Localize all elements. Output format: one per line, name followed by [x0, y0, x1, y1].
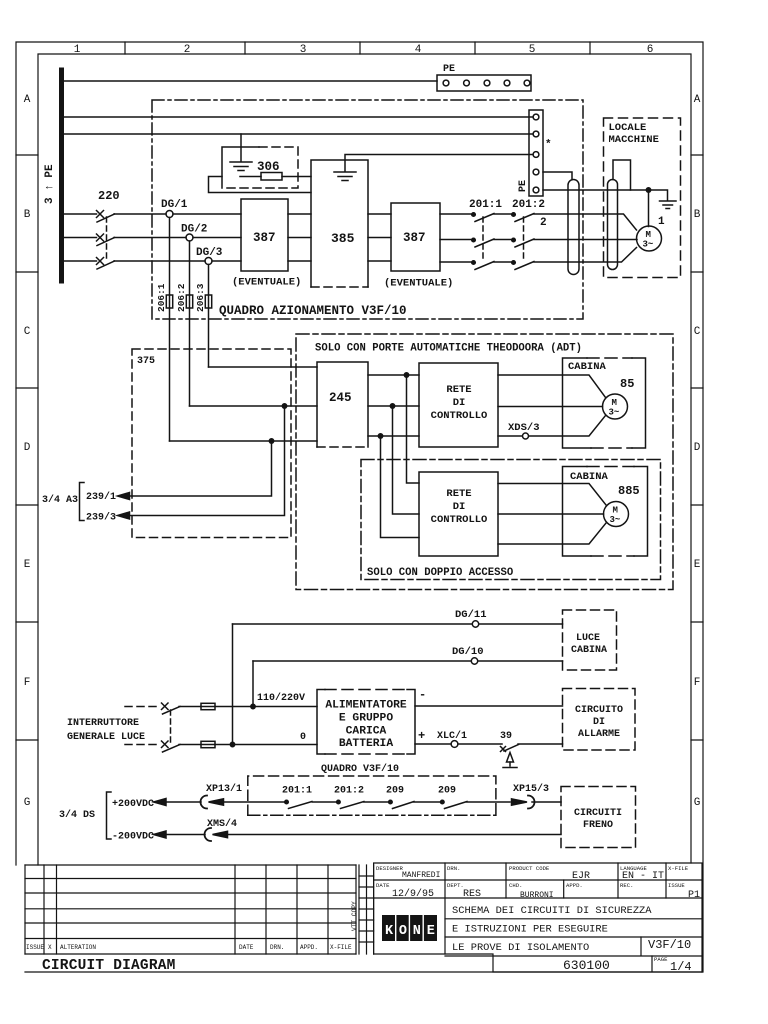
svg-text:1/4: 1/4 [670, 960, 692, 974]
contact 201:2 (brake line) [337, 800, 388, 808]
main switch 220 pole 1 [97, 211, 115, 223]
svg-text:885: 885 [618, 484, 640, 498]
node DG/10 [471, 658, 477, 664]
svg-text:-200VDC: -200VDC [112, 832, 154, 843]
wire XP13/1 to contact 1 [220, 801, 284, 803]
svg-text:206:3: 206:3 [195, 283, 206, 312]
svg-text:3~: 3~ [610, 515, 621, 525]
wire 245 out1 to RETE1 [368, 374, 419, 376]
svg-text:DEPT.: DEPT. [447, 882, 464, 889]
title block small labels [376, 865, 689, 963]
resistor 306 [261, 173, 282, 181]
svg-text:DESIGNER: DESIGNER [376, 865, 403, 872]
drive unit 385 [311, 160, 368, 287]
svg-text:D: D [694, 442, 701, 454]
svg-text:SCHEMA DEI CIRCUITI DI SICUREZ: SCHEMA DEI CIRCUITI DI SICUREZZA [452, 905, 652, 917]
svg-text:209: 209 [386, 786, 404, 797]
svg-text:3~: 3~ [609, 408, 620, 418]
arrow +200VDC [154, 799, 167, 806]
wire wrap under filter to 385 [209, 177, 312, 193]
svg-text:DATE: DATE [239, 944, 254, 951]
svg-text:DI: DI [453, 501, 466, 513]
svg-text:4: 4 [415, 44, 422, 56]
svg-text:39: 39 [500, 731, 512, 742]
wire RETE1 to motor top [498, 375, 606, 398]
svg-text:2: 2 [540, 217, 547, 229]
wire resistor right to 385 [282, 176, 311, 178]
svg-text:XDS/3: XDS/3 [508, 422, 540, 434]
main switch 220 pole 3 [97, 258, 115, 270]
svg-text:RETE: RETE [446, 384, 471, 396]
fuse 206:3 [205, 295, 211, 308]
svg-text:LE PROVE DI ISOLAMENTO: LE PROVE DI ISOLAMENTO [452, 942, 589, 954]
connector XP15/3 [512, 796, 535, 809]
junction dot riser DG/11 [230, 742, 234, 746]
label RETE DI CONTROLLO no.1 [431, 384, 488, 422]
wire XP15/3 to freno [532, 801, 561, 803]
svg-text:M: M [613, 506, 618, 516]
svg-text:MANFREDI: MANFREDI [402, 871, 440, 880]
svg-text:ALIMENTATORE: ALIMENTATORE [325, 700, 407, 712]
svg-text:CONTROLLO: CONTROLLO [431, 410, 488, 422]
svg-text:385: 385 [331, 231, 355, 246]
bracket 3/4 DS [107, 792, 112, 839]
wire DG/2 to 245 input2 [190, 405, 318, 407]
junction dot out2 [390, 404, 394, 408]
svg-text:206:2: 206:2 [176, 283, 187, 312]
wire DG/11 [233, 623, 563, 625]
svg-text:FRENO: FRENO [583, 820, 613, 831]
svg-text:E: E [694, 559, 701, 571]
svg-text:201:1: 201:1 [282, 786, 312, 797]
svg-text:239/1: 239/1 [86, 491, 116, 503]
svg-text:12/9/95: 12/9/95 [392, 888, 434, 900]
wire phase L3 [64, 260, 241, 262]
svg-text:G: G [24, 797, 31, 809]
svg-text:D: D [24, 442, 31, 454]
box CIRCUITI FRENO [561, 787, 636, 848]
node DG/2 [186, 234, 193, 241]
wire 245 out2 to RETE1 [368, 405, 419, 407]
wire bus to strip terminal 2 [64, 133, 533, 135]
svg-text:C: C [24, 326, 31, 338]
svg-text:SOLO CON PORTE AUTOMATICHE THE: SOLO CON PORTE AUTOMATICHE THEODOORA (AD… [315, 343, 582, 355]
svg-text:375: 375 [137, 356, 155, 367]
wire from L-line down to filter ground [240, 134, 242, 161]
junction dot riser DG/10 [251, 704, 255, 708]
wire lead-in top (dashed) [125, 706, 160, 708]
svg-text:245: 245 [329, 391, 352, 405]
arrow -200VDC [154, 831, 167, 838]
revision table grid [25, 865, 356, 954]
wire RETE1 to motor mid [498, 406, 603, 408]
wire arrow to XP13/1 [165, 801, 201, 803]
wire strip terminal 4 to cable [543, 172, 572, 180]
svg-text:XP15/3: XP15/3 [513, 783, 549, 795]
ground (machine room) [660, 201, 677, 209]
wire XLC to switch 39 [458, 743, 502, 745]
wire alim to allarme (minus) [415, 705, 563, 707]
box LUCE CABINA [563, 610, 617, 670]
svg-text:2: 2 [184, 44, 191, 56]
svg-text:B: B [24, 209, 31, 221]
svg-text:CIRCUIT DIAGRAM: CIRCUIT DIAGRAM [42, 958, 176, 974]
svg-text:387: 387 [253, 231, 276, 245]
svg-text:EJR: EJR [572, 871, 590, 882]
svg-text:DG/10: DG/10 [452, 646, 484, 658]
switch general pole 1 [162, 703, 181, 714]
svg-text:V3F/10: V3F/10 [648, 938, 691, 952]
actuator and ground (switch 39) [503, 753, 517, 768]
svg-text:F: F [694, 677, 701, 689]
label LOCALE MACCHINE [609, 122, 659, 146]
fuse 206:2 [186, 295, 192, 308]
box SOLO CON PORTE AUTOMATICHE (ADT) [296, 334, 673, 590]
terminal strip PE (5 terminals) [529, 110, 543, 196]
label LUCE CABINA [571, 633, 607, 656]
box CABINA no.2 [563, 467, 648, 557]
LOW-SECTION [59, 609, 636, 848]
wire DG/3 to 245 input1 [209, 366, 318, 368]
wire tap to 239/3 [129, 406, 285, 516]
wire DG/1 drop [169, 218, 171, 296]
svg-text:3/4 A3: 3/4 A3 [42, 494, 78, 506]
cable sheath oval no.1 [568, 180, 579, 275]
svg-text:DATE: DATE [376, 882, 390, 889]
junction dot out1 [404, 373, 408, 377]
wire bus to PE terminal block [64, 80, 437, 82]
MID-SECTION [42, 218, 673, 590]
connector XP13/1 [201, 796, 224, 809]
label INTERRUTTORE GENERALE LUCE [67, 718, 145, 743]
node DG/3 [205, 258, 212, 265]
svg-text:ISSUE: ISSUE [26, 944, 44, 951]
switch linkage [170, 710, 172, 745]
ground (filter 306) [230, 162, 252, 171]
wire tap to 239/1 [129, 441, 272, 496]
svg-text:0: 0 [300, 732, 306, 743]
svg-text:LUCE: LUCE [576, 633, 600, 644]
revision table labels [26, 944, 352, 951]
TOP-SECTION [44, 64, 681, 319]
wire resistor left [240, 176, 261, 178]
wire RETE2 to motor bottom [498, 523, 606, 544]
wire to fuse bottom [179, 744, 201, 746]
contact 209 no.1 [389, 800, 440, 808]
label RETE DI CONTROLLO no.2 [431, 488, 488, 526]
svg-text:+200VDC: +200VDC [112, 799, 154, 810]
wire 245 out3 to RETE1 [368, 435, 419, 437]
terminal block PE (5 terminals) [437, 75, 531, 91]
switch 39 [501, 745, 519, 752]
wire XMS/4 to freno [224, 834, 561, 836]
svg-text:BATTERIA: BATTERIA [339, 738, 393, 750]
svg-text:XMS/4: XMS/4 [207, 818, 237, 830]
box SOLO CON DOPPIO ACCESSO [361, 460, 661, 580]
wire 385 top to strip terminal 3 [345, 155, 533, 172]
arrow 239/3 [118, 512, 130, 519]
fuse (top lighting) [201, 703, 215, 709]
filter box 306 [222, 147, 298, 188]
svg-text:PE: PE [443, 64, 455, 75]
cable sheath oval no.2 [608, 180, 618, 270]
svg-text:KONE: KONE [385, 924, 441, 939]
svg-text:DI: DI [593, 717, 605, 728]
wire out1 drop to RETE2 [407, 375, 420, 483]
svg-text:206:1: 206:1 [156, 283, 167, 312]
wire L1 to motor [568, 214, 637, 230]
svg-text:3~: 3~ [643, 240, 654, 250]
contact 209 no.2 [441, 800, 511, 808]
title block grid [374, 863, 702, 972]
contactor 201:2 contacts [512, 213, 568, 270]
svg-text:(EVENTUALE): (EVENTUALE) [232, 277, 301, 289]
svg-text:209: 209 [438, 786, 456, 797]
wire arrow to XMS/4 [165, 834, 205, 836]
connector XMS/4 [205, 828, 228, 841]
svg-text:DRN.: DRN. [270, 944, 284, 951]
wire lead-in bottom (dashed) [125, 744, 160, 746]
svg-text:VTT COPY: VTT COPY [351, 901, 358, 931]
svg-text:XP13/1: XP13/1 [206, 783, 242, 795]
svg-text:B: B [694, 209, 701, 221]
wire bus to strip terminal 1 [64, 116, 533, 118]
wire out2 drop to RETE2 [393, 406, 420, 514]
motor M 3~ (hoist) [637, 226, 662, 251]
node XDS/3 [523, 433, 529, 439]
wire DG/1 to 245 input3 [170, 440, 318, 442]
svg-text:1: 1 [658, 216, 665, 228]
box LOCALE MACCHINE [604, 118, 681, 278]
svg-text:X: X [48, 944, 52, 951]
svg-text:EN - IT: EN - IT [622, 871, 664, 882]
svg-text:239/3: 239/3 [86, 512, 116, 524]
svg-text:P1: P1 [688, 890, 700, 901]
bracket 3/4 A3 [80, 483, 85, 521]
node XLC/1 [451, 741, 458, 748]
junction dot out3 [378, 434, 382, 438]
wires 387-385-387 L1 [288, 213, 391, 215]
KONE logo [382, 915, 441, 941]
svg-text:110/220V: 110/220V [257, 692, 305, 704]
svg-text:C: C [694, 326, 701, 338]
svg-text:5: 5 [529, 44, 536, 56]
junction dot (PE at motor) [646, 188, 650, 192]
wires 387-385-387 L2 [288, 237, 391, 239]
wire DG/2 drop [189, 241, 191, 295]
svg-text:M: M [612, 398, 617, 408]
svg-text:3: 3 [300, 44, 307, 56]
svg-text:E: E [24, 559, 31, 571]
node DG/1 [166, 211, 173, 218]
svg-text:XLC/1: XLC/1 [437, 730, 467, 742]
svg-text:INTERRUTTORE: INTERRUTTORE [67, 718, 139, 729]
svg-text:QUADRO V3F/10: QUADRO V3F/10 [321, 763, 399, 775]
wire alim plus to XLC node [415, 743, 451, 745]
svg-text:3/4 DS: 3/4 DS [59, 809, 95, 821]
svg-text:RES: RES [463, 889, 481, 900]
svg-text:RETE: RETE [446, 488, 471, 500]
svg-text:X-FILE: X-FILE [330, 944, 352, 951]
TITLEBLOCK [25, 863, 702, 974]
wire RETE2 to motor top [498, 484, 606, 506]
contact 201:1 (brake line) [285, 800, 336, 808]
box 375 (dashed) [132, 349, 291, 538]
box RETE DI CONTROLLO no.2 [419, 472, 498, 556]
junction dot (239/3 tap) [282, 404, 286, 408]
svg-text:CABINA: CABINA [571, 645, 607, 656]
wire phase L1 [64, 213, 241, 215]
svg-text:ALLARME: ALLARME [578, 729, 620, 740]
wire fuse to alimentatore [215, 706, 317, 708]
svg-text:A: A [24, 94, 31, 106]
svg-text:CONTROLLO: CONTROLLO [431, 514, 488, 526]
fuse 206:1 [166, 295, 172, 308]
wire L2 to motor [568, 239, 637, 241]
ground (drive 385) [334, 172, 356, 181]
svg-text:387: 387 [403, 231, 426, 245]
wire dot to motor [648, 190, 650, 227]
svg-text:E GRUPPO: E GRUPPO [339, 713, 393, 725]
motor 885 (door drive 2) [604, 502, 629, 527]
svg-text:CABINA: CABINA [568, 361, 607, 373]
contactor box 387 no.1 [241, 199, 288, 271]
svg-text:APPD.: APPD. [566, 882, 583, 889]
main switch 220 pole 2 [97, 234, 115, 246]
svg-text:(EVENTUALE): (EVENTUALE) [384, 278, 453, 290]
wire DG/3 drop [208, 265, 210, 296]
wire RETE1 to motor bottom [498, 416, 606, 437]
svg-text:85: 85 [620, 377, 634, 391]
svg-text:DG/11: DG/11 [455, 609, 487, 621]
box CIRCUITO DI ALLARME [563, 689, 636, 751]
svg-text:MACCHINE: MACCHINE [609, 134, 659, 146]
wire fuse2 to 375 [189, 308, 191, 406]
svg-text:*: * [545, 139, 552, 151]
label CIRCUITI FRENO [574, 808, 622, 831]
riser DG/11 to 0-line [232, 624, 234, 745]
svg-text:GENERALE LUCE: GENERALE LUCE [67, 732, 145, 743]
title block values [402, 871, 554, 900]
svg-text:201:1: 201:1 [469, 199, 502, 211]
svg-text:PRODUCT CODE: PRODUCT CODE [509, 865, 550, 872]
wire switch to allarme [518, 743, 563, 745]
contactor 201:1 contacts [440, 213, 512, 270]
VTT COPY strip [351, 865, 374, 954]
svg-text:CABINA: CABINA [570, 471, 609, 483]
shield bond loop [613, 160, 631, 190]
svg-text:-: - [419, 688, 426, 702]
svg-text:A: A [694, 94, 701, 106]
switch general pole 2 [162, 741, 181, 752]
junction dot (239/1 tap) [269, 439, 273, 443]
motor 85 (door drive) [603, 394, 628, 419]
svg-text:DG/2: DG/2 [181, 224, 207, 236]
svg-text:REC.: REC. [620, 882, 633, 889]
wire L3 to motor [568, 248, 637, 263]
svg-text:3 ↑ PE: 3 ↑ PE [44, 164, 56, 204]
riser DG/10 to 110/220V-line [252, 661, 254, 707]
svg-text:ALTERATION: ALTERATION [60, 944, 96, 951]
svg-text:SOLO CON DOPPIO ACCESSO: SOLO CON DOPPIO ACCESSO [367, 567, 513, 579]
wire phase L2 [64, 237, 241, 239]
wire to fuse top [179, 706, 201, 708]
wire fuse3 to 375 [208, 308, 210, 367]
svg-text:DRN.: DRN. [447, 865, 460, 872]
box ALIMENTATORE E GRUPPO CARICA BATTERIA [317, 690, 415, 755]
svg-text:DG/3: DG/3 [196, 247, 223, 259]
svg-text:CARICA: CARICA [346, 726, 387, 738]
svg-text:ISSUE: ISSUE [668, 882, 685, 889]
box QUADRO AZIONAMENTO V3F/10 (dash-dot enclosure) [152, 100, 583, 319]
svg-text:M: M [646, 230, 651, 240]
label CIRCUITO DI ALLARME [575, 705, 623, 740]
box CABINA no.1 [563, 358, 646, 448]
svg-text:DG/1: DG/1 [161, 199, 188, 211]
wire fuse1 to 375 [169, 308, 171, 441]
svg-text:E ISTRUZIONI PER ESEGUIRE: E ISTRUZIONI PER ESEGUIRE [452, 924, 608, 936]
bus 3+PE (main supply busbar) [59, 70, 64, 281]
svg-text:1: 1 [74, 44, 81, 56]
svg-text:G: G [694, 797, 701, 809]
arrow 239/1 [118, 493, 130, 500]
svg-text:CIRCUITO: CIRCUITO [575, 705, 623, 716]
svg-text:630100: 630100 [563, 958, 610, 973]
box RETE DI CONTROLLO no.1 [419, 363, 498, 447]
wire out3 drop to RETE2 [381, 436, 420, 538]
wire PE to machine room [543, 190, 668, 200]
svg-text:F: F [24, 677, 31, 689]
controller box 245 [317, 362, 368, 447]
svg-text:+: + [418, 729, 425, 743]
svg-text:QUADRO AZIONAMENTO V3F/10: QUADRO AZIONAMENTO V3F/10 [219, 304, 407, 318]
wire RETE2 to motor mid [498, 513, 604, 515]
svg-text:201:2: 201:2 [512, 199, 545, 211]
svg-text:201:2: 201:2 [334, 786, 364, 797]
wire fuse to alimentatore 0 [215, 744, 317, 746]
svg-text:APPD.: APPD. [300, 944, 318, 951]
svg-text:CHD.: CHD. [509, 882, 522, 889]
svg-text:PAGE: PAGE [654, 956, 668, 963]
svg-text:CIRCUITI: CIRCUITI [574, 808, 622, 819]
svg-text:220: 220 [98, 189, 120, 203]
svg-text:PE: PE [518, 180, 529, 192]
node DG/11 [472, 621, 478, 627]
switch 220 linkage [106, 217, 108, 261]
label ALIMENTATORE [325, 700, 407, 751]
svg-text:BURRONI: BURRONI [520, 891, 554, 900]
wire DG/10 [253, 660, 563, 662]
svg-text:6: 6 [647, 44, 654, 56]
contactor box 387 no.2 [391, 203, 440, 271]
svg-text:X-FILE: X-FILE [668, 865, 689, 872]
wires 387-385-387 L3 [288, 260, 391, 262]
svg-text:DI: DI [453, 397, 466, 409]
fuse (bottom lighting) [201, 741, 215, 747]
box QUADRO V3F/10 (dashed) [248, 776, 496, 815]
svg-text:LOCALE: LOCALE [609, 122, 647, 134]
